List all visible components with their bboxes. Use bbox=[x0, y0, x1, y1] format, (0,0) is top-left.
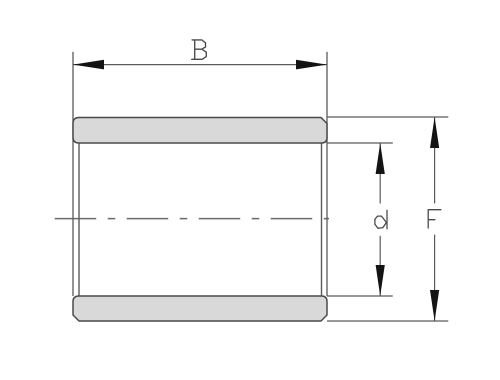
label d bbox=[375, 210, 387, 228]
extension line F top bbox=[327, 116, 448, 118]
arrowhead F down bbox=[430, 290, 439, 321]
arrowhead d up bbox=[376, 143, 385, 174]
dimension line B bbox=[73, 64, 327, 66]
wire bore chamfer line right bbox=[321, 143, 323, 296]
bottom band (bushing wall section, bottom) bbox=[73, 296, 327, 321]
arrowhead F up bbox=[430, 117, 439, 148]
arrowhead B left bbox=[73, 60, 104, 70]
label B bbox=[192, 40, 207, 59]
extension line left (B) bbox=[72, 52, 74, 296]
arrowhead d down bbox=[376, 265, 385, 296]
extension line F bottom bbox=[327, 320, 448, 322]
centerline bbox=[55, 218, 329, 220]
dimension line d upper segment bbox=[379, 143, 381, 204]
arrowhead B right bbox=[296, 60, 327, 70]
extension line right (B) bbox=[326, 52, 328, 296]
label F bbox=[428, 210, 441, 228]
wire bore chamfer line left bbox=[78, 143, 80, 296]
extension line d bottom bbox=[327, 295, 393, 297]
top band (bushing wall section, top) bbox=[73, 118, 327, 144]
dimension line d lower segment bbox=[379, 236, 381, 296]
dimension line F upper segment bbox=[434, 117, 436, 204]
extension line d top bbox=[327, 142, 393, 144]
dimension line F lower segment bbox=[434, 235, 436, 321]
